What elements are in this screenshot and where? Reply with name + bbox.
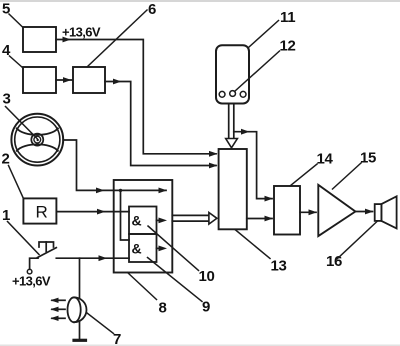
- box 14 (driver block): [274, 186, 300, 235]
- arrowhead on switch wire: [99, 255, 108, 261]
- frame top border: [0, 0, 400, 2]
- box 8 (logic unit): [114, 180, 173, 273]
- wire lamp to ground: [79, 322, 81, 340]
- arrowhead on box5 output: [63, 37, 72, 43]
- hollow arrow remote to box13 head: [226, 139, 238, 148]
- svg-text:5: 5: [2, 1, 10, 18]
- leader line label 8: [128, 273, 157, 300]
- svg-text:&: &: [132, 241, 142, 257]
- wheel hub inner: [34, 136, 41, 143]
- svg-text:12: 12: [280, 38, 296, 55]
- svg-text:1: 1: [2, 207, 10, 224]
- svg-text:14: 14: [317, 151, 334, 168]
- box 4 (sensor block): [23, 67, 56, 93]
- wire box13 to box14: [247, 218, 272, 220]
- wire box6 to box13 input: [105, 82, 216, 166]
- lamp 7 lens ellipse: [68, 297, 81, 322]
- arrowhead inside box8 on wheel wire: [159, 188, 168, 194]
- arrowhead into box14 upper input: [265, 196, 274, 202]
- wheel bottom spoke curve: [17, 144, 58, 150]
- wheel sensor 3 outer ring: [11, 114, 63, 166]
- arrowhead into box14 lower input: [265, 216, 274, 222]
- wire box5 to box13 input: [56, 40, 216, 154]
- leader line label 16: [337, 221, 378, 259]
- remote control 11 body: [216, 45, 249, 103]
- arrowhead before box8 on wheel wire: [96, 188, 105, 194]
- remote button right: [240, 91, 246, 97]
- box 5 (sensor block): [23, 27, 56, 52]
- leader line label 9: [148, 258, 203, 302]
- leader line label 6: [87, 10, 147, 67]
- wheel hub outer: [31, 134, 43, 146]
- leader line label 15: [333, 163, 362, 189]
- svg-text:9: 9: [202, 299, 210, 316]
- arrowhead into amp: [309, 209, 318, 215]
- amplifier 15 triangle: [318, 185, 355, 236]
- pushbutton switch 1 terminal circle: [27, 269, 32, 274]
- lamp 7 bulb dome: [74, 297, 86, 322]
- light arrow 1: [52, 299, 65, 301]
- ground bar: [74, 339, 86, 342]
- arrowhead on R wire: [97, 209, 106, 215]
- leader line label 12: [235, 51, 280, 92]
- svg-text:6: 6: [148, 1, 156, 18]
- gate 9 (lower AND): [129, 234, 157, 262]
- box 13 (central unit): [219, 149, 247, 229]
- gate 9 output arrow: [157, 247, 161, 249]
- wire remote branch to box14 upper input: [234, 132, 272, 199]
- wire box4 to box6: [56, 79, 72, 81]
- svg-text:3: 3: [3, 91, 11, 108]
- leader line label 1: [8, 222, 40, 255]
- switch actuator stem: [45, 242, 47, 252]
- speaker 16 horn: [381, 196, 396, 228]
- remote button left: [219, 91, 225, 97]
- leader line label 11: [249, 21, 279, 48]
- leader line label 7: [87, 313, 114, 334]
- wire branch down to lamp 7: [79, 258, 81, 297]
- switch moving contact: [38, 248, 57, 258]
- arrowhead into box13 upper input: [209, 151, 218, 157]
- remote button middle: [230, 91, 236, 97]
- svg-text:11: 11: [280, 9, 295, 26]
- wheel hub dot: [37, 139, 39, 141]
- box 6 (processing block): [73, 67, 105, 93]
- speaker 16 driver rect: [375, 204, 382, 221]
- light arrow 2: [52, 308, 65, 310]
- arrowhead into speaker: [365, 209, 374, 215]
- switch lead vertical: [30, 258, 38, 269]
- wire box14 to amp15: [300, 211, 316, 213]
- arrowhead on box6 output: [113, 79, 122, 85]
- gate 10 output arrow: [157, 219, 161, 221]
- wheel top spoke curve: [17, 128, 58, 134]
- leader line label 2: [9, 166, 24, 199]
- svg-text:10: 10: [199, 268, 215, 285]
- arrowhead on branch horizontal: [241, 129, 250, 135]
- arrowhead into box6: [63, 77, 72, 83]
- wire switch to gate 9 input: [56, 257, 129, 259]
- svg-text:+13,6V: +13,6V: [12, 274, 51, 289]
- wheel inner rim: [15, 117, 60, 162]
- svg-text:+13,6V: +13,6V: [62, 25, 101, 40]
- light arrow 3: [52, 317, 65, 319]
- wire R to gate 10 input: [56, 211, 129, 213]
- svg-text:8: 8: [159, 300, 167, 317]
- leader line label 4: [10, 56, 24, 68]
- hollow arrow box8 to box13 shaft: [172, 214, 209, 216]
- box 2 R (relay block): [23, 198, 56, 223]
- arrowhead into box13 lower input: [209, 163, 218, 169]
- leader line label 13: [235, 230, 270, 259]
- hollow arrow remote to box13 shaft: [228, 104, 230, 139]
- gate 10 (upper AND): [129, 207, 157, 235]
- leader line label 5: [9, 14, 23, 28]
- wire branch down to gate 9 input: [121, 190, 130, 240]
- leader line label 10: [148, 226, 199, 271]
- svg-text:13: 13: [271, 258, 287, 275]
- wire amp15 to speaker16: [355, 211, 372, 213]
- svg-text:15: 15: [360, 150, 376, 167]
- wire wheel to box8 and through: [63, 140, 166, 190]
- junction dot wheel wire branch: [119, 189, 122, 192]
- leader line label 3: [6, 107, 38, 139]
- svg-text:R: R: [36, 203, 48, 222]
- hollow arrow box8 to box13 head: [209, 213, 217, 225]
- svg-text:&: &: [132, 213, 142, 229]
- leader line label 14: [290, 164, 317, 186]
- switch actuator bar: [39, 242, 54, 247]
- frame bottom border: [0, 344, 400, 346]
